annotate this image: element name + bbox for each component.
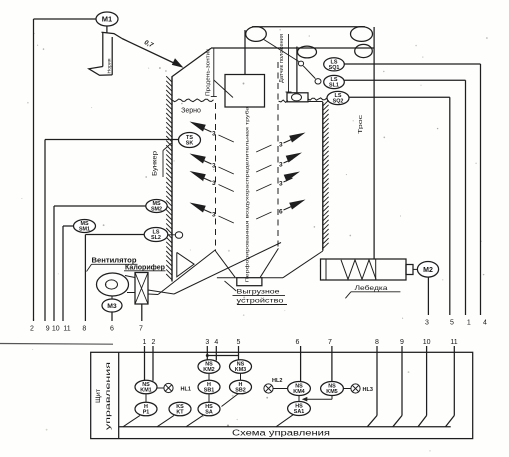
panel terminal number 7 xyxy=(328,339,332,346)
limit switch LS SQ2 xyxy=(327,91,349,104)
svg-text:SM1: SM1 xyxy=(79,227,90,233)
dryer tower right wall xyxy=(322,102,324,251)
wire LS SL1 to terminal 1 xyxy=(344,80,465,315)
svg-text:9: 9 xyxy=(400,339,404,346)
datchik underline xyxy=(286,34,292,92)
contactor NS KM2 xyxy=(198,360,220,374)
pulley small right xyxy=(355,44,373,57)
wire 4 to KM2 xyxy=(215,346,217,361)
switch HS SA1 xyxy=(288,402,311,416)
contactor NS KM1 xyxy=(135,380,157,394)
svg-text:Перфорированная воздухораспред: Перфорированная воздухораспределительная… xyxy=(244,106,249,283)
winch box inner wall xyxy=(325,259,327,280)
svg-text:SB1: SB1 xyxy=(204,388,215,394)
perforated pipe left dashed wall xyxy=(215,103,217,251)
svg-text:2: 2 xyxy=(30,326,34,333)
air duct stub lower xyxy=(148,293,158,296)
svg-text:Датчик положения: Датчик положения xyxy=(279,34,285,83)
right channel hopper slope xyxy=(283,251,323,278)
wire 5 to KM3 xyxy=(238,346,240,360)
svg-text:KM3: KM3 xyxy=(235,367,246,373)
wavy rope left of bracket xyxy=(279,100,289,102)
zontik leader line xyxy=(214,80,233,98)
wire 8 to bus xyxy=(367,346,377,427)
svg-text:3: 3 xyxy=(279,162,283,169)
wire 11 to bus xyxy=(446,346,455,427)
svg-text:3: 3 xyxy=(212,212,216,219)
label Kalorifer xyxy=(124,264,166,271)
motor M1 xyxy=(96,12,118,26)
wire KM5 to SA1 elbow xyxy=(302,396,332,402)
wire KM4 to HL2 xyxy=(273,388,288,390)
motor M2 xyxy=(417,262,438,278)
terminal number 7 xyxy=(139,326,143,333)
terminal number 8 xyxy=(82,326,86,333)
label Tros xyxy=(358,115,364,134)
terminal number 3 right xyxy=(425,320,429,327)
svg-text:6: 6 xyxy=(279,209,283,216)
panel terminal number 9 xyxy=(400,339,404,346)
left wall hatching xyxy=(166,76,172,280)
label Shema upravlenija xyxy=(232,428,330,437)
svg-text:Зерно: Зерно xyxy=(181,107,201,114)
svg-text:3: 3 xyxy=(279,142,283,149)
umbrella box xyxy=(225,75,265,108)
air flow arrow right row3 xyxy=(256,172,300,192)
svg-text:Нория: Нория xyxy=(106,58,112,73)
svg-text:Калорифер: Калорифер xyxy=(125,264,165,271)
panel terminal number 11 xyxy=(450,339,457,346)
svg-text:Щит: Щит xyxy=(95,389,102,403)
air flow arrow right row1 xyxy=(256,133,305,153)
svg-text:Вентилятор: Вентилятор xyxy=(92,257,137,264)
norija bucket elevator xyxy=(89,32,122,75)
svg-text:11: 11 xyxy=(450,339,457,346)
winch coupling xyxy=(406,265,413,275)
panel terminal number 5 xyxy=(237,339,241,346)
winch drum zigzag xyxy=(341,260,376,280)
svg-text:3: 3 xyxy=(212,180,216,187)
fan hub xyxy=(106,280,118,289)
air flow arrow right row4 xyxy=(256,200,305,220)
winch cable end xyxy=(375,259,377,280)
svg-text:SQ2: SQ2 xyxy=(333,99,344,105)
panel label divider xyxy=(118,352,120,438)
svg-text:SK: SK xyxy=(186,141,194,147)
wire 2 to KM1 xyxy=(152,346,154,381)
svg-text:6: 6 xyxy=(296,339,300,346)
wire KM1 to P1 xyxy=(145,394,147,402)
label upravlenija (panel) xyxy=(105,362,112,430)
grain flow arrow 0,7 xyxy=(122,39,184,68)
relay KS KT xyxy=(169,402,191,416)
fan volute xyxy=(97,273,129,296)
svg-text:SA1: SA1 xyxy=(294,409,305,415)
contactor NS KM4 xyxy=(288,382,311,396)
wire LS SQ2 to terminal 5 xyxy=(349,97,450,315)
panel terminal number 10 xyxy=(423,339,431,346)
wire KM2 to SB1 xyxy=(208,373,210,380)
sensor TS SK xyxy=(179,133,201,148)
svg-text:5: 5 xyxy=(450,320,454,327)
wire MS SM1 to terminal 11 xyxy=(63,226,74,321)
button H SB1 xyxy=(198,380,220,394)
svg-text:2: 2 xyxy=(152,339,156,346)
wire LS SQ1 to terminal 4 xyxy=(344,64,480,315)
sensor frame left post xyxy=(296,47,298,93)
terminal number 4 right xyxy=(483,320,487,327)
svg-text:управления: управления xyxy=(105,362,112,430)
wire M3 to terminal 6 xyxy=(111,312,113,321)
pulley big right xyxy=(351,27,373,42)
dryer tower top-left slope xyxy=(172,48,212,77)
wire 6 to KM4 xyxy=(300,346,302,382)
wire M1 shaft to norija xyxy=(106,26,108,33)
wire KM3 to SB2 xyxy=(240,373,242,380)
wire 3 to KM2 xyxy=(206,346,208,360)
wire MS SM2 to terminal 10 xyxy=(54,206,146,321)
svg-text:KM2: KM2 xyxy=(203,367,214,373)
right wall hatching xyxy=(323,100,329,248)
limit switch LS SL1 xyxy=(324,75,345,88)
panel terminal number 4 xyxy=(214,339,218,346)
heater kalorifer xyxy=(135,273,148,305)
contactor NS KM5 xyxy=(321,382,344,396)
sensor MS SM1 xyxy=(74,220,96,233)
LS SL2 float circle xyxy=(175,232,182,239)
air duct stub upper xyxy=(148,290,174,294)
left channel divider triangle xyxy=(177,252,194,276)
svg-text:3: 3 xyxy=(212,163,216,170)
svg-text:KT: KT xyxy=(176,410,184,416)
cable diagonal upper xyxy=(263,39,299,62)
LS SL2 float link xyxy=(168,234,176,236)
dryer tower left wall xyxy=(171,77,173,282)
svg-text:7: 7 xyxy=(139,326,143,333)
winch box xyxy=(321,259,407,280)
panel bottom bus xyxy=(119,426,451,428)
svg-text:Продень-зонтик: Продень-зонтик xyxy=(206,48,212,96)
svg-text:10: 10 xyxy=(52,326,60,333)
svg-text:Схема управления: Схема управления xyxy=(232,428,330,437)
svg-text:SB2: SB2 xyxy=(235,388,246,394)
control panel enclosure xyxy=(91,352,473,438)
bracket to wall link xyxy=(308,101,323,103)
panel terminal number 2 xyxy=(152,339,156,346)
panel terminal number 3 xyxy=(205,339,209,346)
lamp HL3 xyxy=(351,384,373,393)
scan fold artifact xyxy=(0,343,113,346)
svg-text:3: 3 xyxy=(205,339,209,346)
pulley big left xyxy=(246,27,267,42)
wire SB2 to SA diagonal xyxy=(222,394,239,407)
cable pulley node A xyxy=(298,61,303,66)
terminal number 5 right xyxy=(450,320,454,327)
svg-text:Трос: Трос xyxy=(358,115,364,134)
svg-text:М3: М3 xyxy=(107,303,117,310)
suspension cable to box xyxy=(244,30,246,75)
svg-text:3: 3 xyxy=(212,131,216,138)
wire KT to bus xyxy=(157,415,174,426)
coupling link xyxy=(413,268,417,270)
cable to winch xyxy=(373,27,375,259)
wire KM4 to SA1 xyxy=(298,396,300,402)
wire SB1 to SA xyxy=(208,394,210,402)
svg-text:Выгрузное: Выгрузное xyxy=(237,288,280,295)
funnel left slope xyxy=(216,251,236,277)
svg-text:1: 1 xyxy=(143,339,147,346)
funnel bottom line left xyxy=(217,277,237,279)
svg-text:HL2: HL2 xyxy=(272,378,282,384)
svg-text:М2: М2 xyxy=(423,267,433,274)
wire 3-5 jumper xyxy=(207,355,238,357)
limit switch LS SQ1 xyxy=(324,58,345,71)
svg-text:3: 3 xyxy=(425,320,429,327)
cable diagonal lower xyxy=(303,66,315,79)
fan to M3 link xyxy=(111,296,113,299)
motor M3 xyxy=(102,299,122,312)
wire SA to bus xyxy=(186,415,203,426)
label 0,7 xyxy=(143,39,154,49)
sensor bracket xyxy=(287,93,308,102)
svg-text:5: 5 xyxy=(237,339,241,346)
label pipe (vertical) xyxy=(244,106,249,283)
wire KM5 to HL3 xyxy=(343,388,351,390)
sensor MS SM2 xyxy=(146,200,167,213)
svg-text:11: 11 xyxy=(63,326,70,333)
wire SA1 to bus xyxy=(276,415,293,427)
svg-text:SL1: SL1 xyxy=(329,83,339,89)
perforated pipe right dashed wall xyxy=(277,62,279,248)
terminal number 11 xyxy=(63,326,70,333)
wire LS SL2 to terminal 8 xyxy=(85,235,144,322)
panel terminal number 8 xyxy=(375,339,379,346)
label Ventiljator xyxy=(87,257,138,271)
air duct diagonal upper xyxy=(158,250,216,295)
wire 9 to bus xyxy=(393,346,402,427)
svg-text:KM5: KM5 xyxy=(326,389,337,395)
svg-text:M1: M1 xyxy=(102,15,112,24)
svg-text:SQ1: SQ1 xyxy=(329,65,340,71)
air duct diagonal lower xyxy=(174,243,281,295)
svg-text:устройство: устройство xyxy=(237,297,284,305)
air flow arrow left row3 xyxy=(190,171,234,192)
svg-text:Бункер: Бункер xyxy=(153,150,159,176)
air flow arrow left row2 xyxy=(190,154,234,175)
svg-text:P1: P1 xyxy=(143,410,150,416)
label Bunker xyxy=(153,143,172,177)
wire 10 to bus xyxy=(418,346,427,427)
label Datchik polozhenija xyxy=(279,34,285,83)
terminal number 1 right xyxy=(467,320,471,327)
pulley small left xyxy=(298,46,317,58)
terminal number 9 xyxy=(46,326,50,333)
switch HS SA xyxy=(198,402,220,416)
svg-text:6: 6 xyxy=(110,326,114,333)
panel terminal number 1 xyxy=(143,339,147,346)
label Lebedka xyxy=(345,284,400,299)
svg-text:HL1: HL1 xyxy=(181,387,191,393)
wire M2 to terminal 3 xyxy=(427,277,429,315)
wire M1 to terminal 2 (left bus) xyxy=(34,19,97,321)
svg-text:10: 10 xyxy=(423,339,431,346)
discharge box xyxy=(237,278,262,286)
svg-text:8: 8 xyxy=(375,339,379,346)
wire 1 to KM1 xyxy=(144,346,146,381)
grain level wavy line xyxy=(173,99,214,102)
funnel right slope xyxy=(260,248,278,277)
cable pulley node B xyxy=(315,79,321,84)
terminal number 2 xyxy=(30,326,34,333)
svg-text:SL2: SL2 xyxy=(151,235,161,241)
zontik label underline xyxy=(211,49,217,97)
svg-text:Лебедка: Лебедка xyxy=(355,284,388,292)
svg-text:7: 7 xyxy=(328,339,332,346)
svg-text:0,7: 0,7 xyxy=(143,39,154,49)
terminal number 10 xyxy=(52,326,60,333)
label Prodenj-zontik xyxy=(206,48,212,96)
lamp HL1 xyxy=(164,383,191,392)
svg-text:9: 9 xyxy=(46,326,50,333)
contactor NS KM3 xyxy=(230,360,252,374)
wire 7 to KM5 xyxy=(331,346,333,382)
wavy rope bracket to LS SQ2 xyxy=(308,98,327,100)
wire kalorifer to terminal 7 xyxy=(141,304,143,321)
air flow arrow left row1 xyxy=(190,122,234,143)
svg-text:1: 1 xyxy=(467,320,471,327)
bracket roller xyxy=(292,94,302,101)
label Zerno xyxy=(181,107,201,114)
label Norija xyxy=(106,58,112,73)
svg-text:SA: SA xyxy=(205,410,213,416)
button H SB2 xyxy=(230,380,252,394)
air flow arrow right row2 xyxy=(256,153,302,173)
svg-text:4: 4 xyxy=(214,339,218,346)
fan outlet xyxy=(125,276,135,293)
sensor LS SL2 xyxy=(144,228,168,242)
svg-text:HL3: HL3 xyxy=(363,387,373,393)
svg-text:3: 3 xyxy=(279,181,283,188)
relay H P1 xyxy=(135,402,157,416)
svg-text:8: 8 xyxy=(82,326,86,333)
terminal number 6 xyxy=(110,326,114,333)
svg-text:4: 4 xyxy=(483,320,487,327)
svg-text:KM4: KM4 xyxy=(293,389,304,395)
pulley top line xyxy=(252,26,365,28)
wire TS SK to terminal 9 xyxy=(45,140,179,322)
dryer tower top line xyxy=(211,47,374,49)
svg-text:KM1: KM1 xyxy=(140,388,151,394)
air flow arrow left row4 xyxy=(190,203,234,224)
funnel bottom line right xyxy=(262,277,283,279)
label Shchit xyxy=(95,389,102,403)
junction dot node xyxy=(206,354,209,357)
label Vygruznoe ustrojstvo xyxy=(225,281,288,305)
panel terminal number 6 xyxy=(296,339,300,346)
wire P1 to bus xyxy=(123,415,140,426)
lamp HL2 xyxy=(264,378,282,393)
svg-text:SM2: SM2 xyxy=(151,207,162,213)
wire KM1 to HL1 xyxy=(157,387,164,389)
